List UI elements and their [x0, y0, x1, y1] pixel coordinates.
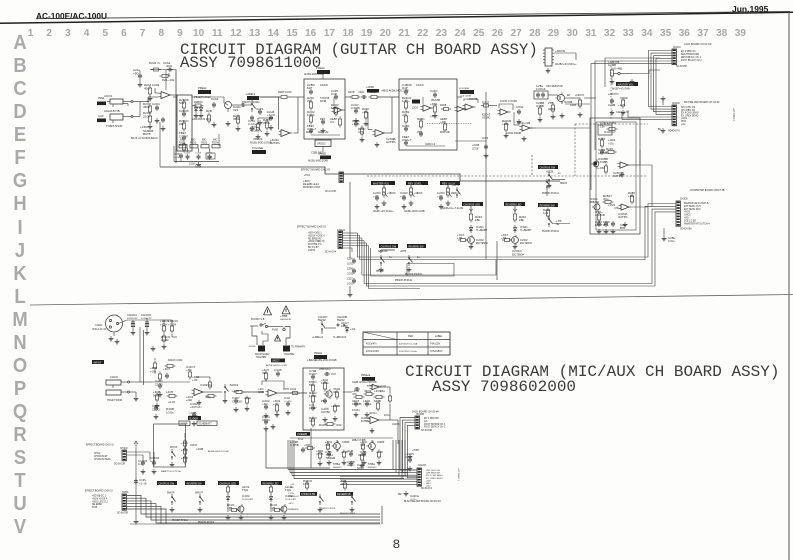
svg-text:C2O2: C2O2 — [476, 238, 484, 242]
svg-text:1OO2: 1OO2 — [347, 273, 354, 276]
svg-text:12OO6: 12OO6 — [320, 84, 328, 87]
svg-text:1Bk: 1Bk — [475, 218, 481, 222]
svg-text:LABEL: LABEL — [435, 335, 443, 338]
svg-text:PB4OP: PB4OP — [376, 270, 384, 273]
svg-text:+O-1B: +O-1B — [168, 401, 175, 404]
svg-text:C2O4: C2O4 — [152, 102, 160, 106]
svg-text:CHORUS 5B: CHORUS 5B — [301, 493, 315, 496]
svg-text:MASTER AR OUTCH-B: MASTER AR OUTCH-B — [684, 202, 709, 205]
svg-text:+BO2 L5O 5C 1: +BO2 L5O 5C 1 — [92, 501, 109, 503]
svg-text:+ABO7E: +ABO7E — [555, 49, 565, 53]
svg-text:EFFECT BOARD CH2 I/O: EFFECT BOARD CH2 I/O — [297, 226, 326, 229]
svg-text:+A2: +A2 — [350, 327, 356, 331]
svg-text:69O: 69O — [213, 140, 218, 142]
svg-text:SO-B-O5R: SO-B-O5R — [117, 513, 128, 515]
svg-text:+1O: +1O — [262, 402, 268, 406]
svg-text:1OOnB: 1OOnB — [174, 157, 182, 159]
svg-text:C1O5: C1O5 — [288, 493, 294, 495]
svg-text:TRAN5B2: TRAN5B2 — [284, 353, 295, 356]
svg-text:+B41: +B41 — [181, 448, 188, 452]
svg-text:PRE&2a: PRE&2a — [361, 374, 371, 377]
svg-text:O2TIPL: O2TIPL — [613, 174, 623, 178]
svg-text:+ABO7O: +ABO7O — [608, 92, 618, 96]
svg-text:O1P: O1P — [402, 86, 408, 90]
svg-text:PM4OP-PF2K3: PM4OP-PF2K3 — [340, 513, 356, 515]
svg-text:2BB2BP: 2BB2BP — [590, 202, 599, 204]
svg-text:CHORUS LED: CHORUS LED — [464, 203, 481, 206]
svg-text:J41OO: J41OO — [110, 376, 118, 379]
svg-text:47O: 47O — [309, 419, 315, 423]
svg-text:+1B: +1B — [501, 236, 506, 240]
svg-text:(O+4B): (O+4B) — [613, 67, 622, 71]
svg-text:REVERB SW: REVERB SW — [187, 482, 203, 485]
svg-text:MASTER VOL: MASTER VOL — [373, 182, 390, 185]
svg-text:R2O9: R2O9 — [306, 132, 313, 134]
svg-text:O4O1: O4O1 — [476, 225, 484, 229]
svg-text:AK2BL-MOD.1OOkB: AK2BL-MOD.1OOkB — [250, 142, 272, 145]
svg-text:O2TIPL: O2TIPL — [618, 215, 628, 219]
svg-text:57BA: 57BA — [333, 462, 340, 466]
svg-text:O O1u: O O1u — [668, 241, 675, 243]
svg-text:TRS&T 5OOR: TRS&T 5OOR — [107, 399, 123, 402]
svg-text:5CO2R T1-B: 5CO2R T1-B — [251, 319, 265, 321]
svg-text:XF3LA-4C-4T: XF3LA-4C-4T — [92, 328, 107, 331]
svg-text:4OOu: 4OOu — [369, 411, 377, 415]
svg-text:5ATBPL: 5ATBPL — [361, 420, 370, 423]
svg-text:TL+BE3BT: TL+BE3BT — [520, 230, 532, 232]
svg-text:SPEED: SPEED — [318, 153, 326, 156]
svg-text:CH4O: CH4O — [418, 463, 427, 467]
svg-text:R2O4: R2O4 — [212, 142, 219, 145]
svg-text:AK2BL-MOD.1OOkB: AK2BL-MOD.1OOkB — [208, 450, 229, 453]
svg-text:B7b: B7b — [620, 226, 626, 230]
svg-text:57BA: 57BA — [368, 462, 375, 466]
svg-text:REVERB SW: REVERB SW — [409, 245, 425, 248]
svg-text:TQG: TQG — [242, 488, 249, 492]
svg-text:+TBB: +TBB — [280, 314, 287, 318]
svg-text:5EA.TB RETURN: 5EA.TB RETURN — [681, 53, 699, 56]
svg-text:C2O2: C2O2 — [520, 238, 528, 242]
svg-text:C222 +1 7b: C222 +1 7b — [616, 111, 629, 114]
svg-text:5AMPTOLU P'П/ТЫ: 5AMPTOLU P'П/ТЫ — [161, 470, 181, 473]
svg-text:+O4: +O4 — [186, 368, 192, 372]
svg-text:C24B C-6: C24B C-6 — [425, 144, 436, 146]
svg-text:L7BB5B-C4: L7BB5B-C4 — [288, 496, 299, 498]
svg-text:4L-B: 4L-B — [347, 449, 353, 453]
svg-text:C24O: C24O — [358, 91, 364, 94]
svg-text:CH4O4: CH4O4 — [127, 313, 137, 317]
svg-text:+7OB7: +7OB7 — [412, 450, 420, 452]
svg-text:LAG/5HOB: LAG/5HOB — [280, 318, 291, 321]
svg-text:CHORUS RT: CHORUS RT — [94, 456, 108, 458]
svg-text:C22B: C22B — [608, 103, 615, 107]
svg-text:U14O3: U14O3 — [190, 445, 198, 447]
svg-text:RE.ERB2 RC: RE.ERB2 RC — [308, 238, 322, 240]
svg-text:LOW: LOW — [98, 115, 104, 118]
svg-text:61P: 61P — [307, 86, 312, 90]
svg-text:5B4OP: 5B4OP — [167, 493, 175, 495]
svg-text:L4O5: L4O5 — [166, 390, 173, 394]
svg-text:PM4OP-PF2KA: PM4OP-PF2KA — [172, 519, 189, 522]
svg-text:CHB: CHB — [352, 380, 358, 384]
svg-text:4 7b: 4 7b — [358, 130, 364, 134]
svg-text:VR7O9: VR7O9 — [367, 380, 377, 384]
svg-text:5TA5: 5TA5 — [92, 506, 98, 509]
svg-text:PB4BB4OB: PB4BB4OB — [288, 509, 299, 511]
svg-text:C42Ou: C42Ou — [410, 494, 420, 498]
svg-text:1OOk: 1OOk — [290, 389, 297, 391]
svg-text:C24O: C24O — [430, 89, 438, 93]
svg-text:45O: 45O — [144, 87, 150, 91]
svg-text:E5CTE5O#: E5CTE5O# — [520, 243, 532, 245]
svg-text:2OOu/1O4O: 2OOu/1O4O — [366, 351, 379, 353]
svg-text:AMA5TER MT OUTCH-4: AMA5TER MT OUTCH-4 — [684, 222, 710, 225]
svg-text:1Ok: 1Ok — [303, 482, 309, 486]
svg-text:U41O7: U41O7 — [272, 360, 280, 363]
svg-text:5CB 2.2 5B: 5CB 2.2 5B — [684, 220, 696, 222]
svg-text:+PO1: +PO1 — [304, 174, 311, 177]
svg-text:+4BO7k: +4BO7k — [414, 192, 424, 195]
svg-text:E5CTE5O#: E5CTE5O# — [476, 243, 488, 245]
svg-text:43u: 43u — [290, 487, 294, 489]
svg-text:R2OB: R2OB — [440, 105, 447, 107]
svg-text:SO-6-O3P: SO-6-O3P — [325, 190, 337, 193]
svg-text:MASTER CONT: MASTER CONT — [303, 186, 321, 189]
svg-text:4OOu: 4OOu — [359, 380, 367, 384]
svg-text:AK2B7+4O,IO43++: AK2B7+4O,IO43++ — [555, 63, 577, 66]
svg-text:TO PRIMARY: TO PRIMARY — [291, 346, 306, 349]
svg-text:BO P.1 B7: BO P.1 B7 — [308, 247, 319, 249]
svg-text:EO 1 PBO BO: EO 1 PBO BO — [424, 418, 439, 420]
svg-text:E5CTE5G#: E5CTE5G# — [512, 255, 524, 257]
svg-text:TL24O2MT: TL24O2MT — [242, 499, 254, 501]
svg-text:C4O2: C4O2 — [242, 494, 250, 498]
svg-text:+NO2: +NO2 — [681, 118, 688, 120]
svg-text:PM4OP-PF2K11: PM4OP-PF2K11 — [542, 231, 560, 233]
svg-text:RE.ERB2: RE.ERB2 — [92, 504, 103, 506]
svg-text:BA3#+CA+-T-41-B2: BA3#+CA+-T-41-B2 — [442, 207, 464, 210]
svg-text:+4O2: +4O2 — [288, 503, 294, 505]
svg-text:+4O2B: +4O2B — [196, 449, 204, 451]
svg-text:+OO: +OO — [150, 370, 157, 374]
svg-text:R2O2: R2O2 — [190, 142, 197, 145]
svg-text:C2O42 45O3B: C2O42 45O3B — [506, 133, 522, 135]
svg-text:+BTB: +BTB — [400, 250, 406, 253]
svg-text:RE5O+: RE5O+ — [451, 192, 460, 195]
svg-text:TL+BBO1O1: TL+BBO1O1 — [333, 337, 347, 339]
svg-text:EP: EP — [567, 94, 571, 97]
svg-text:PER: PER — [408, 335, 413, 338]
svg-text:AK2BL-MOD.2O4B: AK2BL-MOD.2O4B — [404, 210, 425, 213]
svg-text:+BO2V +OOE 4: +BO2V +OOE 4 — [308, 235, 325, 237]
svg-text:+BO2(.CBB2 O): +BO2(.CBB2 O) — [308, 241, 325, 243]
svg-text:CN3O5: CN3O5 — [680, 199, 688, 201]
svg-text:AK2B7+4O,IO43++: AK2B7+4O,IO43++ — [373, 210, 394, 213]
svg-text:+RCHB: +RCHB — [248, 346, 256, 348]
svg-text:RE5T BB AO. OC 2: RE5T BB AO. OC 2 — [681, 56, 702, 59]
svg-text:1OOu: 1OOu — [352, 408, 360, 412]
svg-text:SO-6-O7#: SO-6-O7# — [325, 251, 337, 254]
svg-text:SO-B-O5P: SO-B-O5P — [676, 66, 687, 68]
svg-text:CHORUS SW: CHORUS SW — [159, 482, 175, 485]
svg-text:O2TIPL: O2TIPL — [386, 140, 396, 144]
svg-text:+O7B: +O7B — [283, 389, 289, 391]
svg-text:AK2BL-MOD.2O4B: AK2BL-MOD.2O4B — [304, 73, 324, 76]
svg-text:43u: 43u — [380, 389, 385, 393]
svg-text:C4O32 O OO2B: C4O32 O OO2B — [500, 101, 517, 103]
svg-text:+4O2: +4O2 — [430, 102, 438, 106]
svg-text:1OO2: 1OO2 — [347, 283, 354, 286]
svg-text:+4BO7k: +4BO7k — [387, 192, 397, 195]
svg-text:FOOT 5B RCV CH 1: FOOT 5B RCV CH 1 — [424, 427, 446, 429]
svg-text:4O2: 4O2 — [336, 423, 342, 427]
svg-text:R4O5: R4O5 — [319, 423, 327, 427]
svg-text:R2OB: R2OB — [348, 91, 355, 94]
svg-text:4u: 4u — [389, 256, 392, 259]
svg-text:+O2: +O2 — [437, 195, 443, 199]
svg-text:PF7: PF7 — [321, 399, 327, 403]
svg-text:EFFECT BOARD CH1 I/O: EFFECT BOARD CH1 I/O — [86, 444, 114, 447]
svg-text:INPUT: INPUT — [94, 360, 102, 364]
svg-text:EX 1 REV 5EHO: EX 1 REV 5EHO — [681, 115, 698, 117]
svg-text:FU5E: FU5E — [272, 329, 279, 332]
svg-text:+4O7O+P+: +4O7O+P+ — [190, 407, 202, 409]
svg-text:1Ok: 1Ok — [543, 211, 549, 215]
svg-text:VOLUME: VOLUME — [252, 146, 263, 150]
svg-text:1TOBB: 1TOBB — [598, 160, 607, 164]
svg-text:PM4OP-PF2KA: PM4OP-PF2KA — [198, 521, 215, 524]
svg-text:5B4HB: 5B4HB — [326, 456, 335, 460]
svg-text:EXT 5EHO OUT: EXT 5EHO OUT — [684, 206, 701, 208]
svg-text:CHORUS SW: CHORUS SW — [381, 245, 397, 248]
svg-text:J41O1: J41O1 — [95, 324, 103, 327]
svg-text:LABEL2: LABEL2 — [246, 93, 256, 96]
svg-text:SO-B-O7A: SO-B-O7A — [421, 487, 432, 490]
svg-text:SB4O3A: SB4O3A — [378, 250, 388, 253]
svg-text:C4O7B2: C4O7B2 — [321, 412, 331, 414]
svg-text:+O2: +O2 — [681, 124, 686, 126]
svg-text:REVERB LED: REVERB LED — [263, 482, 279, 485]
svg-text:TL24O2MT: TL24O2MT — [285, 499, 297, 501]
svg-text:R2B: R2B — [206, 109, 212, 113]
svg-text:C43O5: C43O5 — [392, 424, 400, 426]
svg-text:+Ou: +Ou — [273, 402, 279, 406]
svg-text:VZ1: VZ1 — [233, 108, 239, 112]
svg-text:+1-16: +1-16 — [139, 482, 147, 486]
svg-text:AK2B7+4O,IO43+: AK2B7+4O,IO43+ — [612, 88, 631, 91]
svg-text:R2O3: R2O3 — [201, 142, 208, 145]
svg-text:+O3 O4OB: +O3 O4OB — [460, 96, 471, 98]
svg-text:TRAN5B2: TRAN5B2 — [256, 356, 267, 359]
svg-text:R2A+ 4Ok: R2A+ 4Ok — [162, 78, 175, 82]
svg-text:4OO+: 4OO+ — [384, 415, 391, 417]
svg-text:GNO2: GNO2 — [684, 215, 691, 217]
svg-text:+B42: +B42 — [181, 456, 188, 460]
svg-text:PRE&2: PRE&2 — [314, 352, 323, 355]
svg-text:1OOnF: 1OOnF — [536, 87, 546, 91]
svg-text:543B: 543B — [374, 399, 381, 403]
svg-text:+1B: +1B — [457, 236, 462, 240]
svg-text:69O: 69O — [191, 140, 196, 142]
svg-text:IC2O+2: IC2O+2 — [482, 115, 491, 117]
svg-text:+O3: +O3 — [290, 484, 295, 486]
svg-text:MASTER VOL: MASTER VOL — [618, 83, 635, 86]
svg-text:FOO7 5B AO7 OC 2: FOO7 5B AO7 OC 2 — [681, 59, 703, 62]
svg-text:C2O42: C2O42 — [516, 107, 524, 109]
svg-text:4OOu/47u: 4OOu/47u — [366, 344, 377, 346]
svg-text:4OO: 4OO — [166, 64, 173, 68]
svg-text:REVERB LED: REVERB LED — [506, 203, 522, 206]
svg-text:+O21B: +O21B — [472, 145, 480, 147]
svg-text:4u: 4u — [556, 222, 560, 226]
svg-text:REV LEVEL: REV LEVEL — [408, 182, 422, 185]
svg-text:CH1 CHO O9: CH1 CHO O9 — [681, 107, 696, 109]
svg-text:69O: 69O — [202, 140, 207, 142]
svg-text:R2A6 7u: R2A6 7u — [149, 61, 161, 65]
svg-text:CH1 PBO O3: CH1 PBO O3 — [681, 110, 696, 112]
svg-text:22Ok: 22Ok — [143, 115, 150, 119]
svg-text:PE7: PE7 — [398, 494, 403, 496]
svg-text:45Ok: 45Ok — [143, 105, 150, 109]
svg-text:AO.: AO. — [424, 420, 428, 423]
svg-text:C3O2B: C3O2B — [352, 402, 362, 406]
svg-text:1OOk: 1OOk — [166, 411, 174, 415]
svg-text:C21B: C21B — [189, 164, 195, 166]
svg-text:+O3B2: +O3B2 — [607, 121, 616, 125]
svg-text:5T42: 5T42 — [298, 439, 304, 441]
svg-text:AK2BL-MOD.1OO4B: AK2BL-MOD.1OO4B — [266, 364, 287, 367]
svg-text:PRE&2B: PRE&2B — [298, 433, 308, 436]
svg-text:CHORUS PEAK: CHORUS PEAK — [94, 458, 111, 461]
svg-text:O4O1: O4O1 — [520, 225, 528, 229]
svg-text:+F6O7O: +F6O7O — [575, 94, 584, 97]
svg-text:O O1u: O O1u — [410, 499, 417, 501]
svg-text:+B42: +B42 — [181, 441, 188, 445]
svg-text:EX 4 CHO 5EHO: EX 4 CHO 5EHO — [681, 113, 699, 115]
svg-text:+BE2B: +BE2B — [546, 172, 554, 174]
svg-text:+4O3B: +4O3B — [366, 86, 374, 89]
svg-text:22k: 22k — [179, 122, 184, 126]
svg-text:CHORUS SW: CHORUS SW — [540, 166, 556, 169]
svg-text:T2'5A/25OV: T2'5A/25OV — [430, 350, 443, 353]
svg-text:JACK1: JACK1 — [104, 94, 113, 98]
svg-text:C74B: C74B — [207, 157, 213, 159]
svg-text:69O: 69O — [180, 140, 185, 142]
svg-text:CHO2: CHO2 — [94, 453, 101, 455]
svg-text:LACK BOARD CH-O2 KR: LACK BOARD CH-O2 KR — [684, 43, 712, 46]
svg-text:+Ou: +Ou — [608, 142, 614, 146]
svg-text:C2O9: C2O9 — [620, 96, 628, 100]
svg-text:CM5A: CM5A — [122, 491, 129, 494]
svg-text:+O4: +O4 — [192, 378, 198, 382]
svg-text:FOOT 5B BO9 OC 1: FOOT 5B BO9 OC 1 — [424, 424, 446, 426]
svg-text:C2O7: C2O7 — [351, 103, 359, 107]
svg-text:5W PRE AMP BOARD CH-O2 #2: 5W PRE AMP BOARD CH-O2 #2 — [684, 101, 720, 104]
svg-text:C2A9: C2A9 — [152, 83, 160, 87]
svg-text:C2P42: C2P42 — [308, 250, 316, 252]
svg-text:5B4447: 5B4447 — [347, 465, 355, 467]
svg-text:O5C RE5O5TR: O5C RE5O5TR — [546, 85, 563, 88]
svg-text:BA73 +O ATOMA BAO3: BA73 +O ATOMA BAO3 — [131, 137, 158, 140]
svg-text:REVERB SW: REVERB SW — [540, 204, 556, 207]
svg-text:2BB2 C74BB: 2BB2 C74BB — [352, 440, 366, 442]
svg-text:5B2O3: 5B2O3 — [560, 183, 568, 185]
svg-text:SO-B-O3R: SO-B-O3R — [114, 464, 125, 466]
svg-text:VR2O1: VR2O1 — [253, 137, 263, 141]
svg-text:AK2BL-MOD.2O4B: AK2BL-MOD.2O4B — [308, 160, 328, 163]
svg-text:SO4O-O7A: SO4O-O7A — [668, 130, 680, 133]
svg-text:12OO2: 12OO2 — [416, 84, 424, 87]
svg-text:C O5B: C O5B — [290, 443, 299, 447]
svg-text:4u: 4u — [558, 173, 561, 175]
svg-text:EO # PBO O3: EO # PBO O3 — [681, 51, 696, 53]
svg-text:O OO9B: O OO9B — [351, 108, 360, 110]
svg-text:5B4H4O: 5B4H4O — [368, 467, 377, 469]
svg-text:+BO: +BO — [684, 218, 689, 220]
svg-text:PRE&2: PRE&2 — [316, 66, 325, 70]
svg-text:5O4B: 5O4B — [320, 100, 327, 103]
svg-text:C5BB: C5BB — [347, 460, 355, 464]
svg-text:CO2+7: CO2+7 — [402, 138, 412, 142]
svg-text:+BO +OOE 1: +BO +OOE 1 — [308, 233, 322, 235]
svg-text:C4O: C4O — [284, 396, 291, 400]
svg-text:C2O6: C2O6 — [482, 138, 489, 140]
svg-text:R27O6: R27O6 — [170, 447, 178, 449]
svg-text:T4A/125V: T4A/125V — [430, 343, 441, 346]
svg-text:PM4OP-PF2K11: PM4OP-PF2K11 — [405, 273, 423, 276]
svg-text:A-1+1B: A-1+1B — [595, 213, 605, 217]
svg-text:PM5OP-PF2K11: PM5OP-PF2K11 — [542, 193, 560, 195]
svg-text:R2O1: R2O1 — [179, 142, 186, 145]
svg-text:5B4H4O: 5B4H4O — [333, 467, 342, 469]
svg-text:C23BP: C23BP — [342, 442, 350, 444]
svg-text:C4O9: C4O9 — [321, 407, 329, 411]
svg-text:1Bk: 1Bk — [519, 218, 525, 222]
svg-text:AK2BL-MOD.1OO4B: AK2BL-MOD.1OO4B — [315, 359, 337, 362]
svg-text:447/45OV UL-C5A: 447/45OV UL-C5A — [399, 343, 418, 346]
svg-text:C3B: C3B — [258, 390, 264, 394]
svg-text:5W4O2: 5W4O2 — [230, 384, 239, 387]
svg-text:CH4OO: CH4OO — [141, 313, 152, 317]
svg-text:C2O1O: C2O1O — [512, 249, 523, 253]
svg-text:O1OO+7: O1OO+7 — [604, 130, 616, 134]
svg-text:EFFECT BOARD CH1 I/O: EFFECT BOARD CH1 I/O — [301, 169, 330, 172]
svg-text:C2Bu: C2Bu — [668, 236, 676, 240]
svg-text:2TB: 2TB — [548, 101, 553, 105]
svg-text:VR2O2: VR2O2 — [317, 142, 326, 146]
svg-text:C-1B: C-1B — [405, 455, 412, 459]
svg-text:R237 43k: R237 43k — [440, 132, 451, 134]
svg-text:+LABEL21: +LABEL21 — [312, 336, 324, 339]
svg-text:FROM MAIN2: FROM MAIN2 — [255, 353, 270, 356]
svg-text:C43O9: C43O9 — [361, 416, 371, 420]
svg-text:HIGH2-5OTB: HIGH2-5OTB — [104, 109, 120, 113]
svg-text:L2OO: L2OO — [412, 108, 418, 110]
svg-text:O2TIPL: O2TIPL — [270, 141, 280, 145]
svg-text:C2B3: C2B3 — [570, 104, 577, 107]
svg-text:C14O4: C14O4 — [150, 456, 160, 460]
svg-text:4TOk: 4TOk — [250, 129, 258, 133]
svg-text:5CHEMAT7: 5CHEMAT7 — [199, 423, 213, 426]
svg-text:EFFECT BOARD CH3 I/O: EFFECT BOARD CH3 I/O — [85, 490, 113, 493]
svg-text:+1-7O: +1-7O — [267, 113, 276, 117]
svg-text:1OOB: 1OOB — [472, 149, 479, 151]
svg-text:C2A3: C2A3 — [211, 97, 219, 101]
svg-text:+O7.O5EO.1: +O7.O5EO.1 — [732, 108, 734, 122]
svg-text:C23BP: C23BP — [377, 442, 385, 444]
svg-text:R41O6 1OOk: R41O6 1OOk — [168, 359, 183, 362]
svg-text:SO4O-O9A: SO4O-O9A — [680, 228, 692, 231]
